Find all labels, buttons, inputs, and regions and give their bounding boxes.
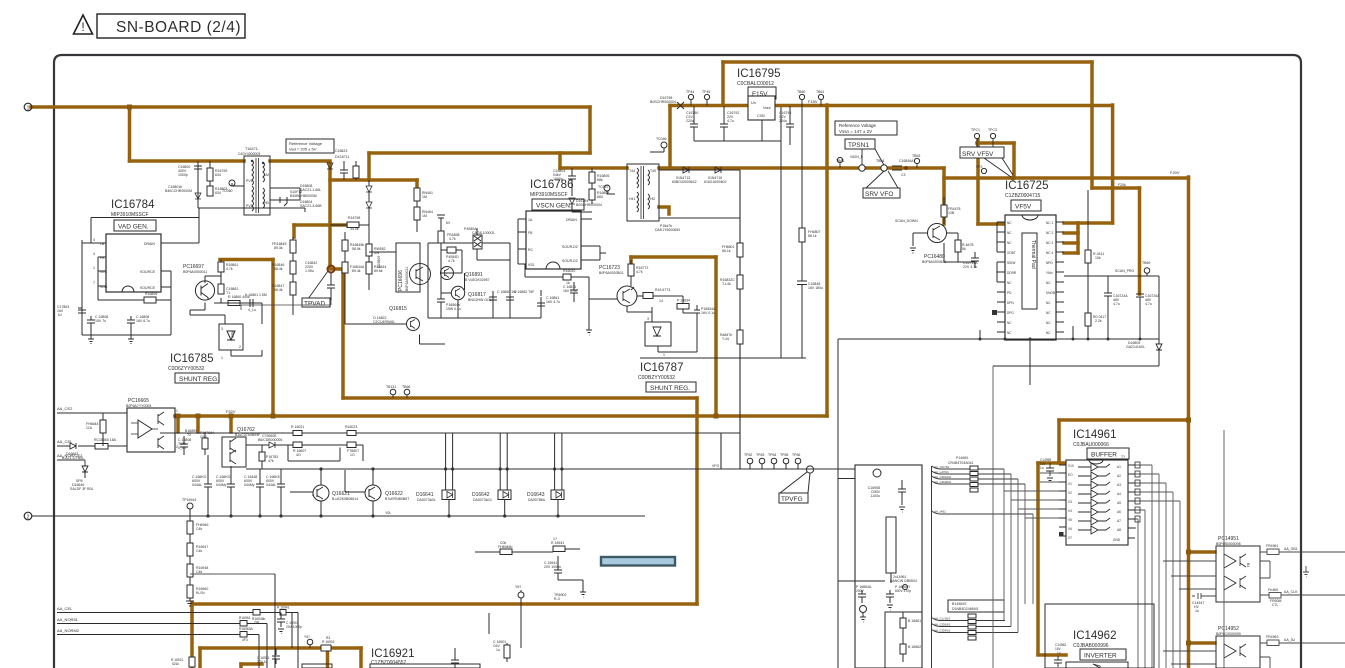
svg-text:RC16660 18A: RC16660 18A [94, 438, 117, 442]
svg-text:RC: RC [528, 248, 534, 252]
svg-text:1u: 1u [1195, 609, 1199, 613]
svg-text:R3: R3 [326, 636, 330, 640]
svg-text:AA_CE2: AA_CE2 [57, 406, 73, 411]
svg-text:Vad = 205 ± 5V: Vad = 205 ± 5V [289, 147, 317, 152]
svg-text:CAG8-1000GL: CAG8-1000GL [472, 231, 495, 235]
svg-text:TB61: TB61 [816, 90, 824, 94]
svg-text:R16963A: R16963A [239, 627, 254, 631]
svg-text:C16823: C16823 [335, 149, 347, 153]
svg-text:D16809: D16809 [377, 256, 381, 268]
svg-text:4.7u: 4.7u [727, 119, 734, 123]
svg-text:68k: 68k [597, 178, 603, 182]
svg-text:4F3: 4F3 [242, 638, 248, 642]
svg-text:PC16696: PC16696 [398, 270, 404, 291]
svg-text:NC: NC [1046, 331, 1051, 335]
svg-text:6V: 6V [446, 221, 451, 225]
svg-text:20V 1000p: 20V 1000p [286, 625, 302, 629]
svg-text:B0SCHR000004: B0SCHR000004 [650, 100, 676, 104]
svg-text:TB66: TB66 [402, 385, 410, 389]
svg-text:NC: NC [1007, 281, 1012, 285]
svg-text:1000p: 1000p [178, 173, 188, 177]
svg-text:IC16787: IC16787 [640, 362, 683, 374]
svg-text:C0k: C0k [500, 541, 506, 545]
svg-text:R-3: R-3 [554, 597, 560, 601]
svg-text:Y5?: Y5? [304, 635, 310, 639]
svg-text:3: 3 [647, 317, 649, 321]
svg-text:684: 684 [597, 195, 603, 199]
svg-text:DA0073ACL: DA0073ACL [473, 498, 493, 502]
svg-text:B0P6C0000090: B0P6C0000090 [1216, 632, 1241, 636]
svg-text:22V 4.7u: 22V 4.7u [963, 265, 977, 269]
svg-text:Y6?: Y6? [515, 585, 521, 589]
svg-text:044My: 044My [216, 483, 227, 487]
svg-text:SOUR-D2: SOUR-D2 [562, 259, 578, 263]
svg-text:1: 1 [27, 106, 30, 112]
svg-text:NC: NC [1046, 321, 1051, 325]
svg-text:TP44: TP44 [686, 90, 694, 94]
svg-text:Q16815: Q16815 [389, 306, 407, 312]
svg-text:C0CBALC00012: C0CBALC00012 [737, 81, 774, 87]
svg-text:BNG2HW GOL: BNG2HW GOL [468, 298, 492, 302]
svg-text:Y0L: Y0L [385, 511, 391, 515]
svg-text:B0P6A0000011: B0P6A0000011 [405, 267, 409, 291]
svg-text:AA_CLK: AA_CLK [1284, 590, 1298, 594]
svg-text:IC14961: IC14961 [1073, 429, 1116, 441]
svg-text:F20V: F20V [1170, 170, 1180, 175]
svg-text:AA_CEL: AA_CEL [57, 439, 73, 444]
svg-text:SOUR-D2: SOUR-D2 [562, 245, 578, 249]
svg-text:FB: FB [100, 256, 105, 260]
svg-text:NC: NC [1007, 231, 1012, 235]
svg-text:SCAN_PRO: SCAN_PRO [1115, 269, 1135, 273]
svg-text:R16806: R16806 [145, 292, 157, 296]
svg-text:AA_LATU1: AA_LATU1 [934, 470, 949, 474]
svg-text:R 16941: R 16941 [277, 606, 290, 610]
svg-text:T2: T2 [187, 433, 191, 437]
svg-text:96.4k: 96.4k [274, 288, 283, 292]
svg-text:NC 1: NC 1 [1046, 221, 1053, 225]
svg-text:B4: B4 [1246, 563, 1250, 567]
svg-text:R16023: R16023 [345, 425, 357, 429]
svg-text:TB69: TB69 [1142, 261, 1150, 265]
svg-text:4.7k: 4.7k [448, 259, 455, 263]
svg-text:NC: NC [1007, 321, 1012, 325]
svg-text:VSCN GEN.: VSCN GEN. [536, 203, 572, 210]
svg-text:1.05u: 1.05u [305, 269, 314, 273]
svg-text:R16961: R16961 [239, 616, 251, 620]
svg-text:16V 0.4u: 16V 0.4u [563, 289, 577, 293]
svg-text:C2CU4R5A0L: C2CU4R5A0L [373, 320, 395, 324]
svg-text:1: 1 [221, 356, 223, 360]
svg-text:DA0073A0L: DA0073A0L [417, 498, 436, 502]
svg-text:58.9k: 58.9k [352, 247, 361, 251]
svg-text:TP65: TP65 [780, 453, 788, 457]
svg-text:C1ZBZ0004715: C1ZBZ0004715 [1005, 193, 1041, 199]
svg-text:B-uE2K0B06614: B-uE2K0B06614 [332, 497, 358, 501]
svg-text:SAC21-1-66L: SAC21-1-66L [300, 188, 321, 192]
svg-text:V10: V10 [1068, 464, 1074, 468]
svg-text:MIP3910MSSCF: MIP3910MSSCF [530, 192, 568, 198]
svg-text:Fe469: Fe469 [1268, 588, 1278, 592]
svg-text:4: 4 [93, 238, 95, 242]
svg-text:C5V: C5V [200, 435, 207, 439]
svg-text:A3: A3 [1117, 483, 1121, 487]
svg-text:R 16941: R 16941 [551, 541, 564, 545]
svg-text:4.7k: 4.7k [636, 270, 643, 274]
svg-text:16V 6.7u: 16V 6.7u [136, 319, 150, 323]
svg-text:60BO43000642: 60BO43000642 [672, 180, 697, 184]
svg-text:1: 1 [663, 353, 665, 357]
svg-text:TB131: TB131 [386, 385, 396, 389]
svg-text:TP45: TP45 [702, 90, 710, 94]
svg-text:2: 2 [27, 515, 30, 521]
svg-text:4O: 4O [296, 453, 301, 457]
svg-text:T?: T? [1121, 455, 1125, 459]
svg-text:LB: LB [100, 242, 105, 246]
svg-text:AA_IA61: AA_IA61 [934, 510, 946, 514]
svg-text:TP16944: TP16944 [182, 498, 196, 502]
svg-text:B40BCHB0000M: B40BCHB0000M [290, 194, 317, 198]
svg-text:KLSh: KLSh [196, 591, 205, 595]
svg-text:D1NB4D2466M1: D1NB4D2466M1 [952, 607, 979, 611]
svg-text:B0P6A0000611: B0P6A0000611 [922, 260, 946, 264]
svg-text:VDD: VDD [100, 285, 108, 289]
svg-text:A6: A6 [1117, 510, 1121, 514]
svg-text:P14960: P14960 [956, 456, 968, 460]
svg-text:SCAN_DOWN: SCAN_DOWN [895, 219, 918, 223]
svg-text:89.3k: 89.3k [274, 246, 283, 250]
svg-text:A1: A1 [1117, 465, 1121, 469]
svg-text:IC14962: IC14962 [1073, 630, 1116, 642]
svg-text:AA_CL/16/1: AA_CL/16/1 [934, 617, 951, 621]
svg-text:C1ZBZ0004557: C1ZBZ0004557 [371, 660, 407, 666]
svg-text:C0JBAB000996: C0JBAB000996 [1073, 643, 1109, 649]
svg-text:SRV VFO: SRV VFO [865, 191, 893, 198]
svg-text:1100u: 1100u [871, 494, 881, 498]
svg-text:TC046: TC046 [656, 137, 667, 141]
svg-text:R16020: R16020 [563, 269, 575, 273]
svg-text:B VUE2K02957: B VUE2K02957 [465, 278, 490, 282]
svg-text:V5: V5 [1068, 518, 1072, 522]
svg-text:521k: 521k [172, 662, 180, 666]
svg-text:044My: 044My [244, 483, 255, 487]
svg-text:DA0078ML: DA0078ML [528, 498, 546, 502]
svg-text:SRV VF5V: SRV VF5V [962, 151, 994, 158]
svg-text:89.6k: 89.6k [374, 269, 383, 273]
svg-text:INVERTER: INVERTER [1084, 653, 1117, 660]
svg-text:SN-BOARD (2/4): SN-BOARD (2/4) [116, 19, 241, 36]
svg-text:C40Y4000003: C40Y4000003 [238, 152, 260, 156]
svg-text:C7L: C7L [1272, 603, 1278, 607]
svg-text:A7: A7 [1117, 519, 1121, 523]
svg-text:NANCW DB5504: NANCW DB5504 [890, 579, 917, 583]
svg-text:Vout: Vout [763, 106, 772, 110]
svg-text:T40: T40 [650, 169, 656, 173]
svg-text:NC 4: NC 4 [1046, 251, 1053, 255]
svg-text:16V 4.7u: 16V 4.7u [546, 300, 560, 304]
svg-text:4: 4 [93, 252, 95, 256]
svg-text:R16 6773: R16 6773 [655, 288, 670, 292]
svg-text:C0DBZYY00532: C0DBZYY00532 [638, 375, 675, 381]
svg-text:4.7k: 4.7k [449, 237, 456, 241]
svg-text:20V 1000u: 20V 1000u [544, 565, 561, 569]
svg-text:B14960S: B14960S [952, 602, 967, 606]
svg-text:AA_CEL: AA_CEL [57, 606, 73, 611]
svg-text:C0D6ZYY00532: C0D6ZYY00532 [168, 366, 205, 372]
svg-text:C3: C3 [901, 173, 906, 177]
svg-text:VF5V: VF5V [1015, 204, 1032, 211]
svg-text:H41: H41 [629, 197, 635, 201]
svg-text:C4k: C4k [196, 570, 202, 574]
svg-text:16V 180u: 16V 180u [808, 286, 823, 290]
svg-text:IC16725: IC16725 [1005, 180, 1048, 192]
svg-text:TPVFG: TPVFG [781, 496, 803, 503]
svg-text:AA_CID16/1: AA_CID16/1 [934, 623, 951, 627]
svg-text:IC16795: IC16795 [737, 68, 780, 80]
svg-text:DDRR: DDRR [1007, 271, 1017, 275]
svg-text:!: ! [81, 20, 84, 34]
svg-text:SHUNT REG.: SHUNT REG. [650, 385, 690, 392]
svg-text:A5: A5 [1117, 501, 1121, 505]
svg-text:F15V: F15V [808, 99, 818, 104]
svg-text:NC: NC [1046, 281, 1051, 285]
svg-text:Thermal Pad: Thermal Pad [1030, 240, 1036, 269]
svg-text:IC16784: IC16784 [111, 199, 155, 211]
svg-text:PD: PD [1007, 291, 1012, 295]
svg-text:GA21416XL: GA21416XL [1126, 345, 1145, 349]
svg-text:IC16786: IC16786 [530, 179, 573, 191]
svg-text:B6/CDB000006: B6/CDB000006 [258, 438, 282, 442]
svg-text:VF2: VF2 [976, 165, 982, 169]
svg-text:B1uC37A0B99F: B1uC37A0B99F [235, 433, 260, 437]
svg-text:REF: REF [230, 331, 234, 338]
svg-text:T-L4k: T-L4k [722, 282, 731, 286]
svg-text:C4k: C4k [196, 549, 202, 553]
svg-text:1u: 1u [1040, 466, 1044, 470]
svg-text:220u: 220u [686, 119, 694, 123]
svg-text:TP63: TP63 [756, 453, 764, 457]
svg-text:Vssn = 147 ± 2V: Vssn = 147 ± 2V [839, 129, 872, 134]
svg-text:C16846A: C16846A [899, 159, 914, 163]
svg-text:AA_GB1: AA_GB1 [1284, 547, 1298, 551]
svg-text:TP64: TP64 [768, 453, 776, 457]
svg-text:SOURCE: SOURCE [140, 286, 156, 290]
svg-text:TPVAD: TPVAD [304, 301, 325, 308]
svg-text:NC 3: NC 3 [1046, 241, 1053, 245]
svg-text:634: 634 [215, 191, 221, 195]
svg-text:T44: T44 [629, 169, 635, 173]
svg-text:C4k: C4k [196, 527, 202, 531]
svg-text:1M: 1M [264, 173, 269, 177]
svg-text:B.AJ1-3-FB0L: B.AJ1-3-FB0L [62, 456, 84, 460]
svg-text:6J: 6J [58, 313, 62, 317]
svg-text:DRAIN: DRAIN [566, 218, 577, 222]
svg-text:FB: FB [528, 231, 533, 235]
svg-text:NC: NC [1046, 301, 1051, 305]
svg-text:KNOB: KNOB [1046, 291, 1055, 295]
svg-text:AA_CIDIN/1: AA_CIDIN/1 [934, 629, 951, 633]
svg-text:2: 2 [239, 345, 241, 349]
svg-text:F52V: F52V [226, 409, 236, 414]
svg-text:B 16662: B 16662 [908, 645, 921, 649]
svg-text:DPN: DPN [1007, 301, 1014, 305]
svg-text:1A: 1A [528, 218, 533, 222]
svg-text:B 16661: B 16661 [908, 619, 921, 623]
svg-text:PV1: PV1 [246, 179, 253, 183]
svg-text:AA_NOR51: AA_NOR51 [57, 617, 79, 622]
svg-text:A2: A2 [1117, 474, 1121, 478]
svg-text:T-44: T-44 [722, 337, 729, 341]
svg-text:CR4B4T04A041: CR4B4T04A041 [948, 461, 974, 465]
svg-text:TC047: TC047 [598, 185, 609, 189]
svg-text:F20k: F20k [1118, 183, 1126, 187]
svg-text:6160-6000602: 6160-6000602 [704, 180, 727, 184]
svg-text:10k: 10k [1095, 256, 1101, 260]
svg-text:B0P6A0000B11: B0P6A0000B11 [599, 271, 624, 275]
svg-text:4.7k: 4.7k [226, 267, 233, 271]
svg-text:1: 1 [176, 409, 178, 413]
svg-text:FR4961: FR4961 [1266, 544, 1279, 548]
svg-text:BUFFER: BUFFER [1091, 452, 1117, 459]
svg-text:FR4963: FR4963 [1266, 635, 1279, 639]
svg-text:V2: V2 [1068, 491, 1072, 495]
svg-text:1?: 1? [553, 537, 557, 541]
svg-text:Reference Voltage: Reference Voltage [839, 123, 877, 128]
svg-text:SIDW: SIDW [1007, 261, 1015, 265]
svg-text:YMo: YMo [1046, 271, 1053, 275]
svg-text:HD: HD [264, 201, 270, 205]
svg-text:12B: 12B [948, 211, 955, 215]
svg-text:TB64: TB64 [876, 159, 884, 163]
svg-text:AA_NORM2: AA_NORM2 [57, 628, 80, 633]
svg-text:IC16785: IC16785 [170, 353, 213, 365]
svg-text:C0JBAU000066: C0JBAU000066 [1073, 442, 1109, 448]
svg-text:TPC3: TPC3 [988, 128, 997, 132]
svg-text:66.1k: 66.1k [722, 249, 731, 253]
svg-text:0_1u: 0_1u [178, 446, 186, 450]
svg-text:P 16834: P 16834 [677, 299, 690, 303]
svg-text:K 16861 1.5M: K 16861 1.5M [245, 293, 267, 297]
svg-text:DRAIN: DRAIN [144, 242, 155, 246]
svg-text:V4: V4 [1068, 509, 1072, 513]
svg-text:B0P6A0000011: B0P6A0000011 [183, 270, 207, 274]
svg-text:AA_CID20/H: AA_CID20/H [934, 480, 951, 484]
svg-text:1M: 1M [422, 214, 427, 218]
svg-text:DPG: DPG [1007, 311, 1014, 315]
svg-text:TPC1: TPC1 [971, 128, 980, 132]
svg-text:A4: A4 [1117, 492, 1121, 496]
svg-text:88.4k: 88.4k [274, 267, 283, 271]
svg-text:HD: HD [650, 197, 656, 201]
svg-text:SALDF 3F B0L: SALDF 3F B0L [70, 487, 94, 491]
svg-text:Reference Voltage: Reference Voltage [289, 141, 323, 146]
svg-text:1000p: 1000p [553, 177, 563, 181]
svg-text:14: 14 [659, 299, 663, 303]
svg-text:FH6946b: FH6946b [498, 545, 512, 549]
svg-text:AA_OU761: AA_OU761 [934, 465, 950, 469]
svg-text:1u: 1u [496, 648, 500, 652]
svg-text:TB63: TB63 [912, 154, 920, 158]
svg-text:IN.C: IN.C [100, 270, 107, 274]
svg-text:A8: A8 [1117, 528, 1121, 532]
svg-text:044AL: 044AL [192, 483, 202, 487]
svg-text:264u: 264u [779, 119, 787, 123]
svg-text:4.7u: 4.7u [1113, 302, 1120, 306]
svg-text:5k: 5k [962, 247, 966, 251]
svg-text:VAD GEN.: VAD GEN. [118, 224, 149, 231]
svg-text:TPSN1: TPSN1 [848, 142, 869, 149]
svg-text:C0N: C0N [757, 114, 765, 118]
svg-text:044AL: 044AL [266, 483, 276, 487]
svg-text:NPD: NPD [1046, 261, 1053, 265]
svg-text:AA_3U: AA_3U [1284, 638, 1296, 642]
svg-text:T16471: T16471 [245, 147, 258, 151]
svg-text:EO: EO [1068, 473, 1073, 477]
svg-text:DAE1Y6000650: DAE1Y6000650 [655, 228, 680, 232]
svg-text:V62N_F: V62N_F [850, 155, 863, 159]
svg-text:R16798: R16798 [348, 216, 360, 220]
svg-text:4_1u: 4_1u [248, 308, 256, 312]
svg-text:TP62: TP62 [744, 453, 752, 457]
svg-text:XOBT: XOBT [1007, 251, 1016, 255]
svg-text:47k: 47k [268, 459, 274, 463]
svg-text:AA_CID16/H: AA_CID16/H [934, 475, 951, 479]
svg-text:1: 1 [93, 266, 95, 270]
svg-text:B7uERNB0B6T: B7uERNB0B6T [385, 497, 410, 501]
svg-text:TB60: TB60 [797, 90, 805, 94]
svg-text:SAC21-3-66B: SAC21-3-66B [300, 204, 322, 208]
svg-text:1u: 1u [1057, 651, 1061, 655]
svg-text:SHUNT REG.: SHUNT REG. [179, 376, 219, 383]
svg-text:V1: V1 [1068, 482, 1072, 486]
svg-text:PV1: PV1 [246, 204, 253, 208]
svg-text:NC: NC [1007, 221, 1012, 225]
svg-text:2.2k: 2.2k [1095, 319, 1102, 323]
svg-text:NC: NC [1046, 311, 1051, 315]
svg-text:B40CCHR0000M: B40CCHR0000M [165, 189, 192, 193]
svg-text:1O: 1O [350, 453, 355, 457]
svg-text:B0P6B0000098: B0P6B0000098 [1216, 542, 1241, 546]
svg-text:Un: Un [751, 101, 756, 105]
svg-text:GND: GND [1113, 538, 1121, 542]
svg-text:34.0k: 34.0k [350, 227, 359, 231]
svg-text:NC: NC [1007, 241, 1012, 245]
svg-text:1M: 1M [422, 195, 427, 199]
svg-text:20V 1u: 20V 1u [257, 660, 268, 664]
svg-text:VS1: VS1 [528, 263, 535, 267]
svg-text:7: 7 [93, 281, 95, 285]
svg-text:DX16711: DX16711 [335, 155, 349, 159]
svg-text:20k: 20k [254, 621, 260, 625]
svg-text:89.4k: 89.4k [352, 269, 361, 273]
svg-text:1Ck: 1Ck [86, 426, 92, 430]
svg-text:3: 3 [221, 327, 223, 331]
svg-text:C 16862 T9F: C 16862 T9F [514, 290, 534, 294]
svg-text:V6: V6 [1068, 527, 1072, 531]
svg-text:200V: 200V [856, 589, 865, 593]
svg-text:TP66: TP66 [792, 453, 800, 457]
svg-text:SOURCE: SOURCE [140, 270, 156, 274]
svg-text:NC 2: NC 2 [1046, 231, 1053, 235]
svg-text:VFG: VFG [712, 464, 719, 468]
svg-text:IC16921: IC16921 [371, 648, 414, 660]
svg-text:16V 0.1u: 16V 0.1u [701, 311, 715, 315]
svg-text:R 16902: R 16902 [322, 640, 335, 644]
svg-text:66.1k: 66.1k [808, 234, 817, 238]
svg-text:15W 0.1u: 15W 0.1u [446, 307, 461, 311]
svg-text:V3: V3 [1068, 500, 1072, 504]
svg-text:R 16021: R 16021 [291, 425, 304, 429]
